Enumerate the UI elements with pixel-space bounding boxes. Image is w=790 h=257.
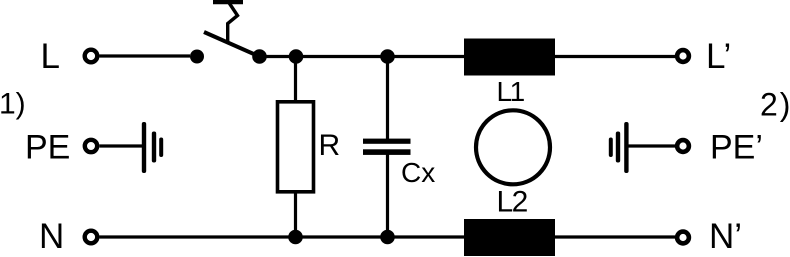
svg-text:L2: L2 [497, 186, 528, 219]
svg-text:L: L [41, 37, 60, 76]
svg-text:Cx: Cx [401, 157, 435, 188]
svg-text:PE: PE [25, 129, 70, 167]
svg-text:N’: N’ [709, 217, 742, 256]
svg-text:1): 1) [0, 88, 26, 121]
svg-text:R: R [319, 129, 341, 162]
svg-text:N: N [39, 217, 64, 256]
svg-text:L’: L’ [706, 37, 731, 76]
svg-text:L1: L1 [497, 76, 525, 107]
svg-text:PE’: PE’ [710, 129, 763, 167]
svg-text:2): 2) [760, 87, 790, 123]
